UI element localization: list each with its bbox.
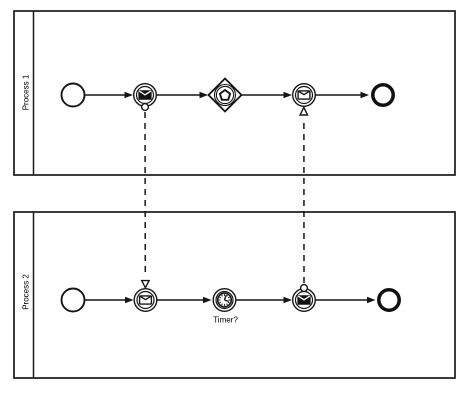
message flow origin circle (Process 1 throw) [142,104,149,111]
sequence flow gateway->message catch (Process 1) [242,92,292,98]
end event (Process 2) [379,290,399,310]
start event (Process 1) [62,84,85,107]
filled envelope icon [138,90,151,99]
filled envelope icon [297,295,310,304]
sequence flow start->message throw (Process 1) [85,92,133,98]
sequence flow start->message catch (Process 2) [85,297,134,303]
message flow origin circle (Process 2 throw) [301,285,308,292]
pool Process 2 label divider [33,212,35,378]
message catch intermediate event (Process 2) [134,289,157,312]
sequence flow message->gateway (Process 1) [157,92,209,98]
clock hands [225,295,229,301]
timer intermediate event (Process 2) [213,289,236,312]
end event (Process 1) [373,85,393,105]
pentagon icon [220,90,230,100]
outline envelope icon [298,91,310,99]
start event (Process 2) [62,289,85,312]
message flow 1 arrowhead (open triangle down) [142,281,149,288]
svg-text:Process 2: Process 2 [22,274,31,310]
message catch intermediate event (Process 1) [293,84,316,107]
message flow 1 (top throw to bottom catch) dashed wire [144,112,146,274]
clock icon [218,293,232,307]
pool Process 2 [14,212,455,378]
message flow 2 (bottom throw to top catch) dashed wire [303,121,305,284]
pool Process 1 label divider [33,11,35,175]
sequence flow message catch->end (Process 1) [316,92,370,98]
svg-text:Process 1: Process 1 [22,74,31,110]
outline envelope icon [140,296,152,304]
message throw intermediate event (Process 2) [293,289,316,312]
pool Process 1 [14,11,455,175]
sequence flow message throw->end (Process 2) [316,297,376,303]
message flow 2 arrowhead (open triangle up) [300,107,307,115]
sequence flow timer->message throw (Process 2) [236,297,292,303]
event-based gateway (Process 1) [209,79,242,112]
sequence flow message catch->timer (Process 2) [157,297,212,303]
svg-text:Timer?: Timer? [213,316,238,325]
message throw intermediate event (Process 1) [134,84,157,107]
